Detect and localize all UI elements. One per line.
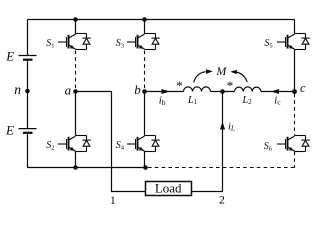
svg-text:*: * bbox=[227, 78, 234, 93]
wire left rail middle bbox=[27, 60, 29, 129]
svg-text:a: a bbox=[65, 82, 72, 97]
junction dot L1/L2 node bbox=[220, 89, 225, 94]
mutual coupling arrow left bbox=[194, 69, 213, 82]
wire L2 to node c bbox=[261, 91, 295, 93]
wire left rail upper bbox=[27, 20, 29, 56]
wire S4 emitter bbox=[144, 152, 146, 168]
node n bbox=[25, 89, 30, 94]
arrow ib bbox=[162, 89, 171, 94]
svg-text:S5: S5 bbox=[264, 38, 272, 50]
svg-text:E: E bbox=[5, 48, 14, 63]
svg-text:S2: S2 bbox=[46, 140, 54, 152]
transistor S3 bbox=[127, 34, 160, 50]
wire node b to S4 collector bbox=[144, 92, 146, 136]
node a bbox=[73, 89, 78, 94]
wire S2 emitter bbox=[75, 152, 77, 168]
svg-text:b: b bbox=[134, 82, 141, 97]
wire L1 to L2 bbox=[211, 91, 235, 93]
node c bbox=[292, 89, 297, 94]
svg-text:n: n bbox=[14, 82, 21, 97]
svg-text:c: c bbox=[300, 81, 306, 95]
svg-text:Load: Load bbox=[155, 180, 182, 195]
wire bottom rail solid bbox=[28, 167, 146, 169]
arrow ic bbox=[271, 89, 279, 94]
inductor L1 bbox=[184, 87, 211, 92]
svg-text:S1: S1 bbox=[46, 38, 54, 50]
svg-text:2: 2 bbox=[219, 193, 225, 207]
junction dot top rail S3 bbox=[142, 17, 147, 22]
wire bottom rail dashed bbox=[148, 167, 295, 169]
wire dashed node c to S6 collector bbox=[294, 94, 296, 136]
svg-text:ic: ic bbox=[274, 95, 281, 106]
junction dot top rail S1 bbox=[73, 17, 78, 22]
svg-text:iL: iL bbox=[228, 121, 235, 132]
svg-text:1: 1 bbox=[110, 195, 116, 207]
transistor S5 bbox=[277, 34, 310, 50]
transistor S4 bbox=[127, 136, 160, 152]
wire load to L1-L2 junction (line 2) bbox=[192, 92, 223, 192]
transistor S2 bbox=[58, 136, 91, 152]
svg-text:M: M bbox=[215, 64, 227, 78]
wire S1 collector bbox=[75, 20, 77, 34]
svg-text:S3: S3 bbox=[116, 38, 124, 50]
wire S3 emitter dashed to node b bbox=[144, 51, 146, 92]
junction dot S2 emitter / bottom rail bbox=[73, 165, 78, 170]
wire right rail top to S5 bbox=[294, 20, 296, 34]
battery E (top) bbox=[19, 56, 37, 60]
wire S3 collector bbox=[144, 20, 146, 34]
inductor L2 bbox=[235, 87, 262, 92]
transistor S6 bbox=[277, 136, 310, 152]
node b bbox=[142, 89, 147, 94]
wire left rail lower bbox=[27, 133, 29, 168]
svg-text:S4: S4 bbox=[116, 140, 125, 152]
wire dashed S6 emitter to bottom rail bbox=[294, 152, 296, 168]
svg-text:L2: L2 bbox=[242, 95, 253, 106]
mutual coupling arrow right bbox=[230, 70, 247, 82]
svg-text:S6: S6 bbox=[264, 141, 273, 153]
wire node a to load (line 1) bbox=[76, 92, 146, 192]
svg-text:ib: ib bbox=[159, 96, 166, 107]
transistor S1 bbox=[58, 34, 91, 50]
wire node a to S2 collector bbox=[75, 92, 77, 136]
load box bbox=[146, 182, 192, 196]
wire top rail bbox=[28, 19, 295, 21]
arrow iL bbox=[220, 122, 225, 130]
svg-text:E: E bbox=[5, 123, 14, 138]
svg-text:*: * bbox=[176, 78, 183, 93]
wire node b to L1 bbox=[145, 91, 184, 93]
junction dot S4 emitter / bottom rail bbox=[143, 165, 148, 170]
svg-text:L1: L1 bbox=[187, 95, 198, 106]
wire S5 emitter to node c bbox=[294, 50, 296, 92]
battery E (bottom) bbox=[19, 129, 37, 133]
wire S1 emitter dashed to node a bbox=[75, 51, 77, 92]
